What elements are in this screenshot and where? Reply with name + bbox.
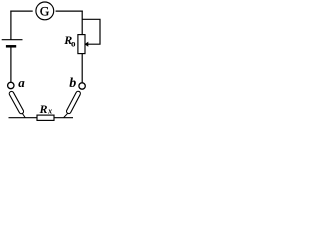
svg-text:b: b bbox=[69, 76, 76, 91]
wire: right vertical from top corner down to rheostat box bbox=[81, 11, 83, 35]
wire: bottom left segment bbox=[9, 117, 38, 119]
svg-text:x: x bbox=[47, 107, 52, 116]
battery BT1 short thick plate (negative) bbox=[6, 45, 16, 48]
svg-text:R: R bbox=[39, 102, 48, 116]
resistor Rx box bbox=[37, 115, 54, 120]
wire: bottom right segment bbox=[54, 117, 73, 119]
svg-text:a: a bbox=[18, 75, 25, 90]
wire: top horizontal right segment bbox=[56, 10, 83, 12]
galvanometer U1 circle bbox=[36, 2, 54, 20]
svg-text:o: o bbox=[71, 38, 76, 48]
svg-text:G: G bbox=[40, 3, 49, 18]
lead wire loop from terminal b to bottom wire bbox=[64, 90, 82, 117]
wire: right vertical from terminal b up to rheostat bbox=[81, 54, 83, 83]
wire: left vertical from battery to terminal a bbox=[10, 48, 12, 83]
lead wire loop from terminal a to bottom wire bbox=[8, 91, 25, 118]
wire: top horizontal left segment bbox=[10, 10, 32, 12]
terminal a circle bbox=[8, 82, 14, 88]
battery BT1 long plate (positive) bbox=[2, 39, 23, 41]
rheostat R0 box bbox=[78, 35, 85, 54]
rheostat wiper arrowhead bbox=[85, 42, 89, 47]
terminal b circle bbox=[79, 83, 85, 89]
wire: wiper branch with corner bbox=[82, 19, 100, 44]
wire: left vertical down to battery bbox=[10, 11, 12, 40]
